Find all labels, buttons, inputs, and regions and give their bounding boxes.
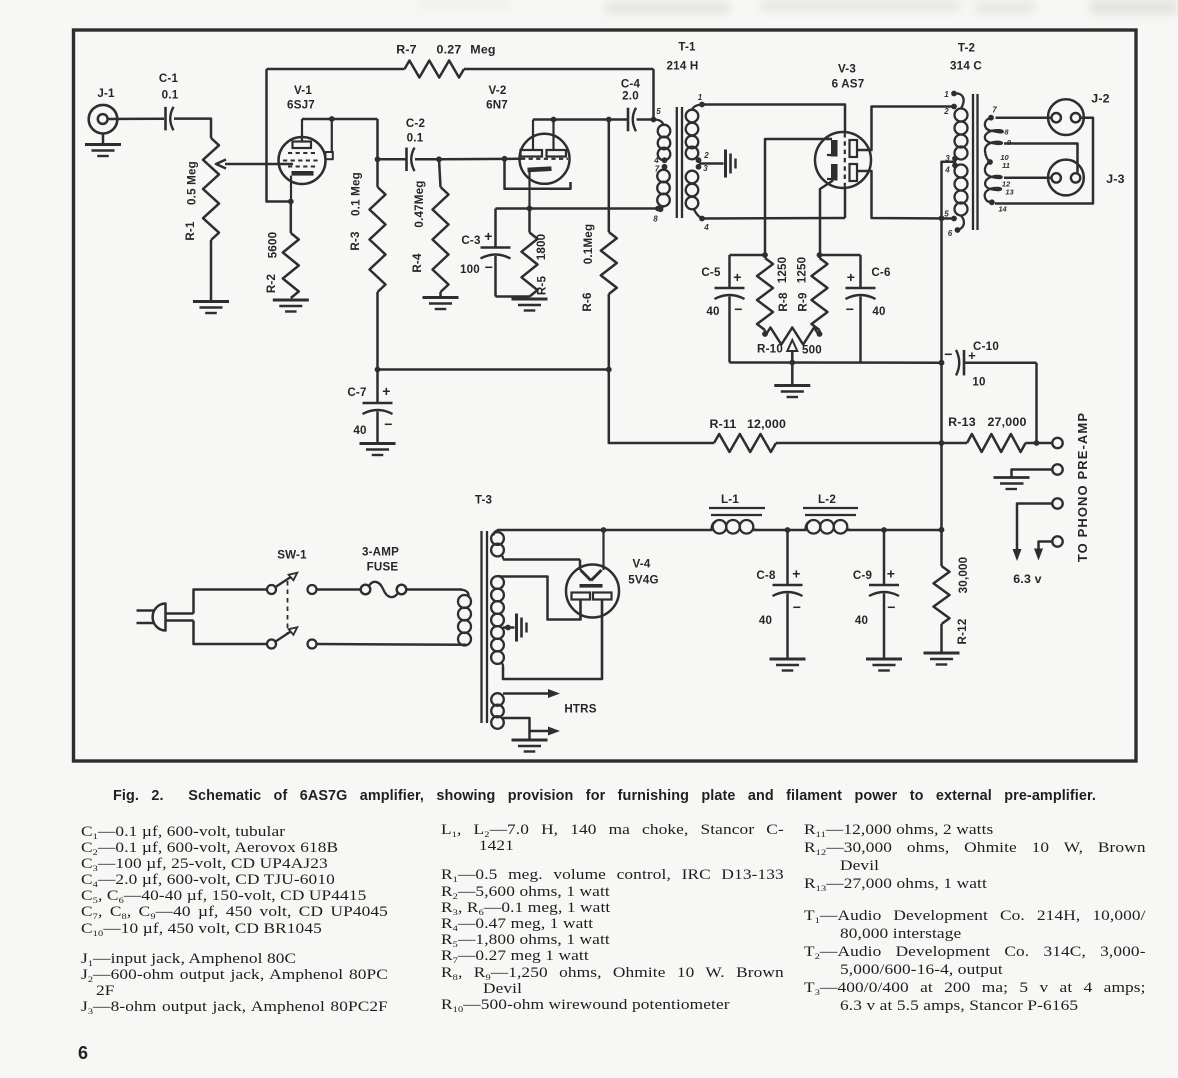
capacitor C9 40 <box>883 530 886 585</box>
wire V3 right cathode to T-2 pin5 <box>857 171 954 219</box>
resistor R2 5600 <box>290 202 293 234</box>
ground at heater lead <box>528 731 531 740</box>
svg-text:40: 40 <box>706 305 719 318</box>
svg-text:30,000: 30,000 <box>957 557 970 594</box>
svg-text:3: 3 <box>945 154 950 163</box>
capacitor C3 100 <box>494 209 497 248</box>
svg-text:C-6: C-6 <box>871 266 891 279</box>
capacitor C4 2.0 <box>627 108 630 132</box>
svg-text:5V4G: 5V4G <box>628 574 658 587</box>
svg-text:R-7: R-7 <box>396 43 417 57</box>
svg-text:R-5: R-5 <box>536 276 549 296</box>
svg-text:+: + <box>968 348 976 363</box>
svg-text:10: 10 <box>972 376 985 389</box>
choke L2 <box>803 507 858 509</box>
tube V2 6N7 <box>520 134 570 184</box>
svg-text:R-11: R-11 <box>710 417 737 431</box>
resistor R11 12000 <box>609 370 714 444</box>
T3 HV winding <box>491 576 504 589</box>
wire node down to R-3 node <box>376 119 379 159</box>
svg-text:5: 5 <box>656 107 661 116</box>
svg-text:314 C: 314 C <box>950 60 982 73</box>
page number <box>78 1043 88 1064</box>
cathode rail V2 <box>496 207 659 210</box>
svg-text:2.0: 2.0 <box>622 90 639 103</box>
wire tap12 to J-3 left pin <box>1004 177 1052 180</box>
T3 heater winding <box>491 693 504 706</box>
wire T2 CT down to B+ rail <box>954 159 957 166</box>
choke L1 <box>709 507 765 509</box>
svg-text:R-13: R-13 <box>948 415 976 429</box>
parts list column 3 <box>804 821 1146 1015</box>
svg-text:6: 6 <box>948 229 953 238</box>
schematic border frame <box>74 30 1137 761</box>
svg-text:0.1 Meg: 0.1 Meg <box>350 172 363 216</box>
svg-text:R-1: R-1 <box>184 221 197 241</box>
resistor R12 30000 <box>940 530 943 566</box>
svg-text:1800: 1800 <box>535 234 548 261</box>
wire V3 left grid to R-8 <box>765 139 832 255</box>
svg-text:8: 8 <box>1004 128 1009 137</box>
capacitor C2 <box>378 158 407 161</box>
svg-text:C-8: C-8 <box>756 569 776 582</box>
svg-text:0.27: 0.27 <box>437 43 462 57</box>
potentiometer R1 0.5 Meg <box>203 138 219 240</box>
output terminal 1 <box>1052 438 1062 448</box>
svg-text:V-3: V-3 <box>838 63 856 76</box>
svg-text:R-8: R-8 <box>777 292 790 312</box>
svg-text:7: 7 <box>992 106 997 115</box>
svg-text:J-1: J-1 <box>97 87 115 100</box>
svg-text:6 AS7: 6 AS7 <box>832 78 865 91</box>
svg-text:8: 8 <box>653 215 658 224</box>
svg-text:−: − <box>384 416 392 432</box>
svg-text:−: − <box>485 259 493 275</box>
capacitor C7 40 <box>376 370 379 404</box>
svg-text:SW-1: SW-1 <box>277 549 307 562</box>
wire bias network top left <box>730 254 766 257</box>
ground below R-10 <box>791 363 794 386</box>
caption <box>113 788 1096 804</box>
T2 secondary winding <box>988 115 994 121</box>
heater leads HTRS <box>503 692 549 695</box>
wire fuse to T3 <box>406 588 462 591</box>
svg-text:FUSE: FUSE <box>367 561 399 574</box>
svg-text:0.1: 0.1 <box>407 132 424 145</box>
svg-text:R-2: R-2 <box>265 274 278 293</box>
svg-text:14: 14 <box>998 205 1007 214</box>
svg-text:−: − <box>734 301 742 317</box>
svg-text:−: − <box>944 346 952 362</box>
svg-text:1250: 1250 <box>776 257 789 284</box>
svg-text:27,000: 27,000 <box>987 415 1026 429</box>
svg-text:HTRS: HTRS <box>564 703 596 716</box>
svg-text:4: 4 <box>944 166 950 175</box>
svg-text:40: 40 <box>759 614 772 627</box>
wire T1 pin1 to V3 grid <box>702 105 845 133</box>
svg-text:C-3: C-3 <box>461 234 481 247</box>
feedback wire from R-7 to cathode <box>267 69 291 202</box>
svg-text:3: 3 <box>703 164 708 173</box>
svg-text:6N7: 6N7 <box>486 99 508 112</box>
parts list column 1 <box>81 824 388 1016</box>
output terminal 2 with ground <box>1052 464 1062 474</box>
svg-text:T-2: T-2 <box>958 42 975 55</box>
svg-text:3-AMP: 3-AMP <box>362 546 399 559</box>
svg-text:R-10: R-10 <box>757 343 783 356</box>
resistor R5 1800 <box>528 209 531 233</box>
wire C-2 to V-2 grid <box>439 158 521 161</box>
ground below J-1 <box>102 134 105 145</box>
wire tap9 to J-3 right pin <box>1004 144 1078 173</box>
svg-text:1: 1 <box>698 93 703 102</box>
wire grid loop around V-2 <box>505 159 571 189</box>
svg-text:V-2: V-2 <box>488 84 506 97</box>
svg-text:0.1: 0.1 <box>162 89 179 102</box>
svg-text:500: 500 <box>802 344 822 357</box>
svg-text:+: + <box>792 566 800 582</box>
svg-text:1: 1 <box>944 90 949 99</box>
svg-text:V-4: V-4 <box>632 558 650 571</box>
ground at T3 HV CT <box>505 625 511 631</box>
wire J-2 to pin 14 <box>995 118 1093 204</box>
capacitor C10 10 <box>939 360 945 366</box>
svg-text:100: 100 <box>460 263 480 276</box>
svg-text:5600: 5600 <box>267 232 280 259</box>
svg-text:12,000: 12,000 <box>747 417 786 431</box>
svg-text:C-10: C-10 <box>973 340 999 353</box>
wire HV top to V4 left plate <box>503 577 581 620</box>
svg-text:+: + <box>382 383 390 399</box>
svg-text:R-4: R-4 <box>411 253 424 273</box>
B+ rail to R-11 <box>378 368 609 371</box>
svg-text:L-2: L-2 <box>818 493 836 506</box>
svg-text:6SJ7: 6SJ7 <box>287 99 315 112</box>
wire V2 plates to C-4 node <box>533 118 628 121</box>
svg-text:C-7: C-7 <box>347 386 366 399</box>
svg-text:L-1: L-1 <box>721 493 739 506</box>
svg-text:R-9: R-9 <box>797 292 810 312</box>
tube V3 6AS7 <box>815 132 871 188</box>
wire J-1 to C-1 <box>108 118 164 121</box>
wire T1 pin4 line <box>702 217 845 220</box>
wire HV bottom to V4 right plate <box>503 600 602 680</box>
output terminal 3 with 6.3v arrow <box>1052 498 1062 508</box>
svg-text:2: 2 <box>703 151 709 160</box>
svg-text:40: 40 <box>855 614 868 627</box>
svg-text:Meg: Meg <box>470 43 495 57</box>
wire V1 plate to node <box>302 118 378 121</box>
svg-text:TO PHONO PRE-AMP: TO PHONO PRE-AMP <box>1075 412 1090 562</box>
wire V3 left cathode down <box>820 181 833 256</box>
capacitor C8 40 <box>786 530 789 585</box>
svg-text:5: 5 <box>944 210 949 219</box>
svg-text:6.3 v: 6.3 v <box>1013 572 1042 586</box>
resistor R7 0.27 Meg feedback <box>267 68 405 71</box>
svg-text:13: 13 <box>1005 188 1014 197</box>
parts list column 2 <box>441 822 784 1014</box>
capacitor C1 <box>164 107 167 131</box>
capacitor C6 40 <box>859 255 862 288</box>
svg-text:T-3: T-3 <box>475 494 493 507</box>
wire V3 right plate to T-2 <box>857 107 954 151</box>
svg-text:T-1: T-1 <box>678 41 696 54</box>
input jack J-1 <box>89 105 118 134</box>
T3 primary winding <box>460 590 469 598</box>
potentiometer R10 500 <box>765 328 820 345</box>
output terminal 4 with arrow <box>1052 536 1062 546</box>
tube V1 6SJ7 <box>279 137 326 184</box>
svg-text:11: 11 <box>1002 161 1010 170</box>
wire to C6 <box>820 254 861 257</box>
svg-text:R-3: R-3 <box>349 231 362 251</box>
svg-text:R-6: R-6 <box>581 292 594 312</box>
svg-text:40: 40 <box>872 305 885 318</box>
svg-text:J-2: J-2 <box>1091 92 1110 106</box>
capacitor C5 40 <box>728 255 731 288</box>
resistor R3 0.1 Meg <box>370 187 386 292</box>
AC plug <box>137 609 155 612</box>
svg-text:J-3: J-3 <box>1106 172 1125 186</box>
T3 5v winding <box>494 530 501 536</box>
svg-text:4: 4 <box>703 223 709 232</box>
ground at T-1 secondary CT <box>699 162 724 165</box>
resistor R13 27000 <box>942 442 968 445</box>
svg-text:+: + <box>887 566 895 582</box>
svg-text:0.1Meg: 0.1Meg <box>582 224 595 265</box>
resistor R9 1250 <box>818 255 821 258</box>
svg-text:−: − <box>887 599 895 615</box>
svg-text:V-1: V-1 <box>294 84 312 97</box>
B+ rail from rectifier <box>497 529 713 532</box>
output jack J-3 <box>1048 160 1084 196</box>
svg-text:0.5 Meg: 0.5 Meg <box>186 161 199 205</box>
svg-text:+: + <box>847 269 855 285</box>
svg-text:R-12: R-12 <box>956 619 969 645</box>
wire switch to fuse <box>317 588 361 591</box>
bottom rail of bias network <box>730 361 942 364</box>
svg-text:−: − <box>846 301 854 317</box>
svg-text:−: − <box>793 599 801 615</box>
svg-text:C-5: C-5 <box>701 266 721 279</box>
bleed-through smudges at top <box>605 2 730 14</box>
resistor R4 0.47Meg <box>439 159 441 187</box>
svg-text:+: + <box>484 228 492 244</box>
wire switch lower to T3 <box>317 643 467 646</box>
resistor R8 1250 <box>757 258 773 330</box>
svg-text:40: 40 <box>353 424 366 437</box>
svg-text:1250: 1250 <box>796 257 809 284</box>
output jack J-2 <box>1048 99 1084 135</box>
tube V4 5V4G <box>566 565 619 618</box>
wire C-1 to R-1 <box>174 119 211 138</box>
svg-text:214 H: 214 H <box>667 60 699 73</box>
wire T2 pin7 to J-2 <box>996 116 1052 119</box>
svg-text:0.47Meg: 0.47Meg <box>413 180 426 227</box>
wires plug to switch <box>194 590 268 614</box>
svg-text:C-2: C-2 <box>406 117 425 130</box>
resistor R6 0.1Meg <box>608 120 611 233</box>
svg-text:C-9: C-9 <box>853 569 873 582</box>
svg-text:+: + <box>733 269 741 285</box>
svg-text:C-1: C-1 <box>159 72 179 85</box>
svg-text:2: 2 <box>943 107 949 116</box>
